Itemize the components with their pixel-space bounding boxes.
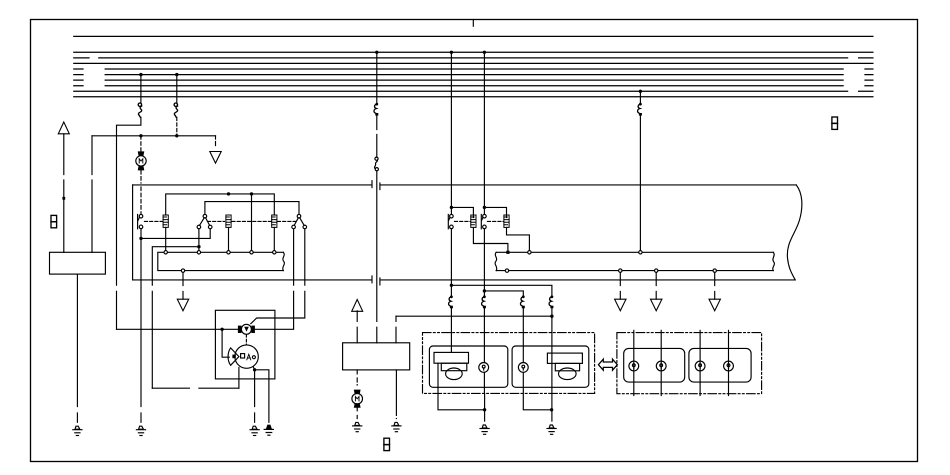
power window master switch block	[343, 343, 410, 370]
bus line 8	[74, 85, 873, 87]
dashed link contact R1 to coil	[455, 220, 471, 222]
rear door rounded box R2	[689, 348, 751, 382]
wire S4 down to door lock motor R	[551, 309, 553, 354]
wire to ground G4	[255, 370, 269, 423]
wire cylinder C1	[633, 330, 635, 395]
section 2 right break squiggle	[773, 252, 775, 270]
wire to coil R1	[451, 207, 473, 217]
key cylinder L	[479, 363, 489, 373]
relay box B1	[50, 252, 106, 274]
wire contact C left throw down	[255, 229, 294, 329]
connector symbol DS3 (double square)	[384, 438, 390, 450]
wire coil K1 to port	[165, 227, 167, 250]
wire from arrow UA1 down to box B1	[63, 134, 65, 253]
port circle P10 bottom	[619, 269, 622, 272]
dashed mech link motor to gear	[245, 335, 247, 345]
wire door lock motor R through to ground G8	[551, 353, 553, 421]
power window motor box	[215, 310, 275, 379]
transfer arrow symbol	[598, 359, 617, 370]
junction block strip section 2	[496, 252, 773, 270]
port circle P5	[273, 251, 276, 254]
connector glyph on wire 376.8	[374, 103, 378, 116]
off-page arrow down DT5	[709, 299, 720, 311]
wire y388.2 to motor assembly	[152, 387, 239, 389]
wire port P12 down	[714, 272, 716, 299]
wire to coil R2	[484, 207, 506, 217]
key cylinder C1	[629, 361, 639, 371]
relay contact R1	[448, 214, 453, 228]
dashed wire fuse F2 to node B	[176, 117, 178, 136]
dashed link contact R2 to coil	[488, 220, 504, 222]
wire y238.4 to contact B right throw	[141, 229, 210, 239]
ground G3	[250, 426, 259, 435]
junction dot master switch feed y315	[550, 315, 553, 318]
dashed link coil K3 to contact C	[278, 220, 297, 222]
bus line 2	[74, 51, 873, 53]
wire cylinder C4	[728, 330, 730, 395]
relay contact B (changeover)	[197, 214, 212, 228]
dashed wire motor M1 to contact A	[140, 170, 142, 214]
ground G8	[547, 425, 556, 434]
port circle P11 bottom	[655, 269, 658, 272]
junction dot contact A / y238.4	[139, 237, 142, 240]
wire contact A common down	[140, 229, 142, 239]
junction dot relay R2 coil branch	[483, 206, 486, 209]
off-page arrow up UA1	[58, 122, 69, 134]
wire 640.4 from bus down	[639, 91, 641, 103]
bus line 10 (bottom)	[74, 96, 873, 98]
wire dot to circuit breaker	[222, 329, 229, 357]
junction dot G7	[483, 408, 486, 411]
inline connector S2	[482, 295, 486, 308]
port circle P12 bottom	[713, 269, 716, 272]
connector glyph 2 on wire 376.8	[374, 157, 378, 171]
junction dot wire 451.4 on bus 2	[450, 51, 453, 54]
off-page arrow down (node B)	[210, 152, 221, 164]
ground G6	[392, 422, 401, 431]
bus line 7	[74, 79, 873, 81]
connector symbol DS2 (double square)	[832, 117, 838, 129]
inline connector S1	[449, 295, 453, 308]
rear door rounded box R1	[624, 348, 685, 382]
relay contact R2	[481, 214, 486, 228]
dashed link contact B to coil K2	[208, 220, 225, 222]
dashed link contact A to coil K1	[145, 220, 163, 222]
relay contact A	[138, 214, 143, 228]
key cylinder R	[518, 363, 528, 373]
wire coil K3 to port	[273, 227, 275, 250]
motor M1 (washer motor)	[136, 151, 146, 170]
wire 376.8 middle	[376, 116, 378, 157]
junction dot breaker branch	[220, 328, 223, 331]
ground G7	[480, 425, 489, 434]
window regulator circle	[235, 345, 258, 368]
splice square on UA1 wire	[62, 197, 65, 200]
junction dot y246.7	[197, 245, 200, 248]
wire port P11 down	[655, 272, 657, 299]
bus line 9	[74, 90, 873, 92]
wire contact R1 down	[450, 229, 452, 296]
wire contact A ground branch	[140, 238, 142, 422]
door lock control dashed box R	[617, 333, 762, 394]
rail 1 inside big box	[166, 194, 275, 215]
fuse F1 glyph	[138, 103, 142, 117]
section 1 right break squiggle	[283, 252, 285, 270]
connector glyph on wire 640.4	[638, 103, 642, 116]
wire contact C right throw down	[251, 229, 305, 324]
dashed link coil K2 to coil K3	[232, 220, 271, 222]
junction dot G8	[550, 408, 553, 411]
fuse F1 wire from bus	[140, 75, 142, 103]
wire 640.4 down to port P8	[639, 116, 641, 251]
bus line 1 (top)	[74, 35, 873, 37]
big box wavy right edge	[787, 185, 802, 280]
wire S1 down to door lock motor L	[450, 309, 452, 353]
junction dot R1 branch y285.3	[450, 284, 453, 287]
door lock motor L	[434, 352, 469, 379]
key cylinder C3	[695, 361, 705, 371]
junction dot R2 branch y290.9	[483, 289, 486, 292]
port circle P9 bottom	[505, 269, 508, 272]
port circle P2	[197, 251, 200, 254]
bus line 4	[74, 62, 873, 64]
relay coil K2	[226, 215, 231, 227]
ground G5	[353, 422, 362, 431]
inline connector S4	[549, 295, 553, 308]
wire master switch right input	[395, 316, 397, 343]
wire S2 down to key cylinder L	[483, 309, 485, 363]
wire master switch to ground G6	[395, 370, 397, 419]
key cylinder C2	[656, 361, 666, 371]
bus line 5	[74, 68, 873, 70]
frame tick mark top	[472, 20, 474, 27]
junction dot relay R1 coil branch	[450, 206, 453, 209]
door lock control dashed box L	[423, 333, 595, 394]
junction block strip section 1	[158, 252, 283, 270]
rail 2 inside big box	[205, 202, 299, 215]
wire to ground G3	[254, 370, 256, 423]
relay coil K3	[272, 215, 277, 227]
port circle P6 bottom	[181, 269, 184, 272]
off-page arrow down DT3	[615, 299, 626, 311]
wire key cylinder R down	[523, 372, 551, 410]
wire y315 from master switch	[396, 315, 552, 317]
relay contact C (changeover)	[292, 214, 307, 228]
wire port P6 down	[182, 272, 184, 299]
big box (integration ECU) top edge with break	[133, 184, 797, 186]
junction dot fuse F2 on bus 6	[175, 73, 178, 76]
wire horizontal y329.3 to motor box	[117, 328, 239, 330]
relay coil R2	[504, 215, 509, 227]
dashed wire motor M2 to ground	[356, 408, 358, 419]
off-page arrow down DT4	[651, 299, 662, 311]
wire coil K2 to port	[228, 227, 230, 250]
ground G4	[264, 425, 273, 436]
wire regulator bottom left	[238, 367, 240, 388]
wire contact B left throw down	[198, 229, 200, 247]
big box left edge	[132, 185, 134, 280]
junction dot wire 484.4 on bus 2	[483, 51, 486, 54]
wire S3 down to key cylinder R	[522, 309, 524, 363]
wire 376.8 from bus down	[376, 52, 378, 103]
dashed wire to motor M1	[140, 136, 142, 151]
motor M2	[352, 390, 363, 408]
wire x152.3 port drop	[198, 247, 200, 251]
door lock motor R	[547, 353, 582, 380]
off-page arrow up UA2	[352, 300, 363, 312]
front door rounded box L	[429, 346, 507, 387]
junction dot rail1 port drop	[250, 192, 253, 195]
wire y290.9 right to x523.3	[484, 291, 523, 296]
ground G1	[73, 426, 82, 435]
port circle P4	[250, 251, 253, 254]
junction dot fuse F1 on bus 6	[139, 73, 142, 76]
crossing break ticks top	[372, 181, 380, 190]
wire 376.8 through big box to master switch	[376, 171, 378, 343]
junction dot rail1 coil K2	[227, 192, 230, 195]
bus line 3	[74, 57, 873, 59]
wire regulator bottom right	[253, 367, 254, 370]
wire arrow UA2 to master switch	[356, 311, 358, 343]
wire coil R2 to port P7	[507, 227, 530, 250]
port circle P3	[227, 251, 230, 254]
power window motor MPW	[238, 324, 255, 334]
wire door lock motor L bottom	[438, 363, 485, 410]
key cylinder C4	[724, 361, 734, 371]
off-page arrow down DT2	[177, 299, 188, 311]
junction square dot on strip	[506, 251, 509, 254]
inline connector S3	[520, 295, 524, 308]
section 2 left break squiggle	[495, 252, 497, 270]
wire fuse F1 down and left to x116.5	[117, 117, 141, 329]
wire master switch to motor M2	[356, 370, 358, 385]
crossing break ticks bottom	[372, 276, 380, 285]
big box bottom edge with break	[133, 279, 796, 281]
wire contact R2 down	[483, 229, 485, 296]
junction dot ground branch	[253, 368, 256, 371]
fuse F2 wire from bus	[176, 75, 178, 103]
junction dot wire 376.8 on bus 2	[375, 51, 378, 54]
wire cylinder L to ground G7	[484, 393, 486, 421]
junction dot motor branch on wire B	[139, 134, 142, 137]
wire y285.3 right to x551.9	[451, 285, 552, 295]
wire B left end down to box B1	[91, 136, 93, 253]
ground G2	[136, 426, 145, 435]
connector symbol DS1 (double square)	[51, 215, 57, 227]
port circle P7	[528, 251, 531, 254]
fuse F2 glyph	[174, 103, 178, 117]
relay coil R1	[471, 215, 476, 227]
circuit breaker sector	[228, 348, 239, 365]
wire rail1 port drop	[251, 194, 253, 251]
wire y246.7 left and down x152.3	[152, 247, 199, 389]
bus line 6	[74, 74, 873, 76]
wire coil R1 to strip dot	[473, 227, 508, 250]
port circle P8	[639, 251, 642, 254]
wire cylinder C2	[660, 330, 662, 395]
wire port P10 down	[619, 272, 621, 299]
wire 451.4 from bus down to relay R1	[450, 52, 452, 214]
wire 484.4 from bus down to relay R2	[483, 52, 485, 214]
relay coil K1	[163, 215, 168, 227]
junction dot wire 640.4 on bus 9	[639, 90, 642, 93]
wire B horizontal y135.8	[92, 135, 216, 137]
junction dot fuse2 branch on wire B	[175, 134, 178, 137]
rear door rounded box L	[512, 346, 589, 387]
wire B right end down to arrow	[215, 136, 217, 148]
wire box B1 to ground	[76, 274, 78, 422]
wire cylinder C3	[699, 330, 701, 395]
wire key cylinder L down	[483, 372, 485, 393]
port circle P1	[164, 251, 167, 254]
